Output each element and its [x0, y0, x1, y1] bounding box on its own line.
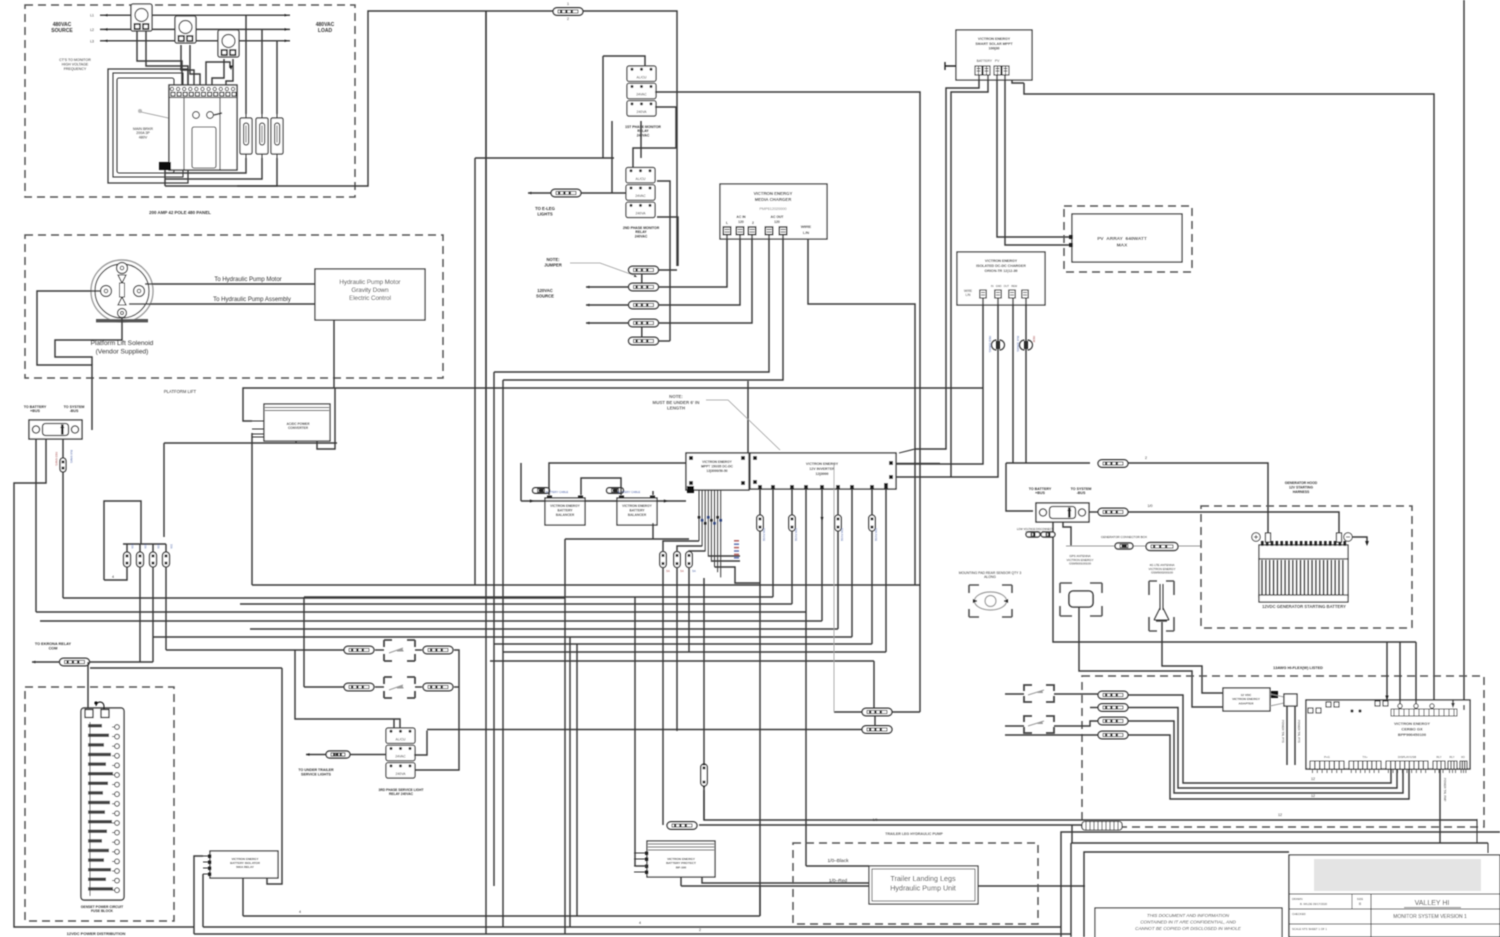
svg-text:FUSE BLOCK: FUSE BLOCK: [91, 909, 114, 913]
svg-text:PMP612020000: PMP612020000: [759, 207, 786, 211]
drop x304b: [303, 597, 305, 687]
svg-text:CT'S TO MONITOR: CT'S TO MONITOR: [59, 58, 91, 62]
connector pill protect bus: [667, 822, 697, 830]
svg-text:24VAC: 24VAC: [635, 194, 646, 198]
svg-text:12VDC POWER DISTRIBUTION: 12VDC POWER DISTRIBUTION: [67, 931, 126, 936]
svg-text:4: 4: [112, 575, 114, 579]
cerbo top comb: [1391, 709, 1457, 716]
svg-text:5A: 5A: [692, 569, 696, 573]
drop x874 to pill: [873, 661, 875, 709]
svg-text:12|3000: 12|3000: [816, 472, 829, 476]
drop x565: [564, 539, 566, 934]
svg-text:GSM900200100: GSM900200100: [1151, 571, 1173, 575]
leader note2: [899, 449, 946, 453]
svg-text:Gravity Down: Gravity Down: [351, 287, 389, 294]
connector pill svc r1 left: [344, 646, 374, 654]
wire p0 right: [658, 269, 677, 271]
svg-text:P+G: P+G: [1324, 755, 1330, 759]
wire solenoid to motor: [145, 283, 315, 285]
wire T1 right out long: [655, 92, 920, 712]
ribbon bend 3: [689, 551, 705, 552]
svg-text:+BUS: +BUS: [1035, 491, 1045, 495]
svg-text:480VAC: 480VAC: [53, 22, 72, 28]
svg-text:CONVERTER: CONVERTER: [288, 426, 309, 430]
svg-text:200 AMP 42 POLE 480 PANEL: 200 AMP 42 POLE 480 PANEL: [149, 210, 211, 215]
bus y644: [494, 643, 872, 645]
wire U2 drop x872: [871, 489, 873, 644]
svg-text:CONTAINED IN IT ARE CONFIDENTI: CONTAINED IN IT ARE CONFIDENTIAL, AND: [1140, 919, 1236, 924]
4g dashed box: [1149, 581, 1174, 631]
eye sensor dashed box: [969, 585, 1012, 617]
bracket1 left stub: [1005, 693, 1024, 695]
arrow L3 left: [104, 39, 108, 42]
cerbo comb group4: [1433, 761, 1445, 773]
wire adapter eth1: [1286, 706, 1288, 765]
wire r1 mid b: [415, 649, 422, 651]
arrow cerbo feed1: [1385, 696, 1388, 701]
fuse group feed 2: [139, 544, 141, 552]
wire cab1 right: [892, 711, 920, 713]
bus bottom y927: [203, 926, 1061, 928]
wire ve.can top edge: [1463, 0, 1465, 705]
title row line3: [1289, 923, 1500, 925]
wire 4g lead: [1162, 622, 1223, 693]
gray line generator: [1066, 545, 1201, 547]
wire bp bottom1: [680, 877, 682, 886]
wire src lead 305: [586, 304, 629, 306]
wire cerbo feed2: [1399, 642, 1401, 708]
B2 top pins: [619, 496, 624, 499]
wire battery ground: [1352, 537, 1367, 541]
tiny pill lv2: [1041, 532, 1055, 537]
lamp dashed box r1: [384, 640, 415, 661]
svg-text:BP-100: BP-100: [676, 865, 687, 869]
title block outer: [1289, 855, 1500, 937]
svg-text:GENERATOR HOOD: GENERATOR HOOD: [1285, 481, 1318, 485]
ribbon legend marks: [734, 540, 739, 559]
wire row4 to cerbo: [1128, 735, 1409, 799]
drop x760 low: [759, 886, 761, 916]
platform connector block: [29, 420, 82, 439]
wire minus bus b: [1128, 512, 1339, 535]
svg-text:GENERATOR CONNECTOR BOX: GENERATOR CONNECTOR BOX: [1101, 535, 1147, 539]
drop x760: [759, 585, 761, 916]
wire bus battery plus b: [1128, 463, 1268, 535]
victron media converter box: [720, 184, 827, 239]
wire row2 to cerbo: [1128, 708, 1397, 789]
U2 bottom pins: [758, 485, 888, 489]
svg-text:POWER TRL PTS: POWER TRL PTS: [1297, 720, 1301, 743]
4g antenna symbol: [1154, 584, 1169, 621]
svg-text:POWER TRL PTS: POWER TRL PTS: [1281, 720, 1285, 743]
wire orion drop to connector: [1006, 463, 1033, 511]
svg-text:2: 2: [752, 221, 754, 225]
arrow svc pill: [306, 753, 310, 756]
pv input pins: [1069, 235, 1073, 239]
bus bottom y934: [194, 933, 1071, 935]
trailer landing legs box: [869, 866, 978, 904]
relay box RB1: [210, 851, 278, 878]
fuse group fuse 1: [124, 552, 131, 567]
wire T3 right mid: [414, 731, 427, 756]
connector pill svc r2 right: [423, 683, 453, 691]
connector pill e-leg: [551, 189, 581, 197]
wire T1 top feed b: [603, 56, 645, 66]
wire cab1 gray up: [833, 463, 835, 712]
svg-text:DRAWN: DRAWN: [1292, 897, 1302, 901]
svg-text:L: L: [726, 221, 728, 225]
svg-text:ALONG: ALONG: [984, 575, 996, 579]
long vertical x486: [485, 11, 487, 934]
wire L2 to F2: [261, 29, 263, 114]
trailer landing legs inner: [872, 869, 975, 901]
ribbon bend 5: [711, 560, 740, 562]
ribbon bend 2: [677, 546, 702, 552]
svg-text:L2: L2: [90, 28, 94, 32]
wire rb jog vertical: [267, 668, 282, 884]
svg-text:5A: 5A: [666, 569, 670, 573]
svg-text:BALANCER: BALANCER: [556, 513, 575, 517]
arrow L3 right: [285, 39, 289, 42]
wire r1 mid a: [375, 649, 384, 651]
wire U2 drop x760: [759, 489, 761, 585]
wire solenoid inner loop: [55, 318, 122, 365]
wire B1-B2 link: [581, 478, 621, 495]
wire ve.direct long right: [1024, 83, 1434, 703]
current transformer CT2: [175, 16, 196, 43]
victron orion box: [957, 252, 1045, 305]
svg-text:15A FUSE: 15A FUSE: [840, 528, 844, 541]
dashed trailer pump enclosure: [793, 843, 1038, 924]
svg-text:BATTERY: BATTERY: [629, 509, 645, 513]
arrow marker x822: [820, 517, 823, 521]
connector pill svc r2 left: [344, 683, 374, 691]
wire T3 top stub2: [393, 719, 395, 728]
wire T2 right stub: [657, 181, 670, 341]
cerbo pin circles: [1398, 704, 1434, 708]
fuse F2: [256, 114, 268, 158]
converter vents: [265, 408, 329, 411]
wire r2 mid b: [415, 686, 422, 688]
svg-text:LIGHTS: LIGHTS: [537, 211, 553, 216]
svg-text:12|3000/50-50: 12|3000/50-50: [706, 469, 727, 473]
lamp dashed box r2: [384, 677, 415, 698]
battery plus terminal: [1252, 533, 1260, 541]
wire jumper p3-p4: [641, 326, 643, 338]
wire U2 drop x838: [837, 489, 839, 629]
wire U2 drop x886: [885, 489, 887, 652]
wire lv loop: [1053, 522, 1416, 642]
lamp switch r2: [389, 685, 403, 690]
ribbon bend 4: [708, 555, 740, 557]
wire media t1: [658, 235, 727, 287]
svg-text:TO UNDER TRAILER: TO UNDER TRAILER: [298, 768, 334, 772]
svg-text:MPPT 150/35 DC-DC: MPPT 150/35 DC-DC: [701, 464, 733, 468]
eye sensor symbol: [973, 592, 1008, 610]
bus y443: [164, 442, 337, 444]
svg-text:NOTE:: NOTE:: [669, 394, 683, 399]
svg-text:BATTERY: BATTERY: [557, 509, 573, 513]
svg-text:THIS DOCUMENT AND INFORMATION: THIS DOCUMENT AND INFORMATION: [1147, 913, 1230, 918]
smartsolar terminal blocks: [975, 66, 1009, 75]
svg-text:Platform Lift Solenoid: Platform Lift Solenoid: [91, 340, 154, 347]
wire genset feed: [87, 662, 89, 708]
svg-text:TRAILER LEG HYDRAULIC PUMP: TRAILER LEG HYDRAULIC PUMP: [885, 832, 943, 836]
svg-text:120: 120: [774, 220, 780, 224]
cerbo comb group2: [1349, 761, 1381, 773]
svg-text:AC IN: AC IN: [736, 215, 746, 219]
wire L1 to F1: [245, 15, 247, 114]
svg-text:480VAC: 480VAC: [316, 22, 335, 28]
svg-text:CERBO GX: CERBO GX: [1401, 727, 1423, 732]
svg-text:ORION-TR 12|12-30: ORION-TR 12|12-30: [985, 269, 1018, 273]
wire svc pill right: [350, 754, 386, 756]
panel lug black: [159, 162, 171, 170]
svg-text:12V STARTING: 12V STARTING: [1289, 486, 1313, 490]
bus y661: [490, 660, 874, 662]
wire T3 top: [295, 650, 400, 728]
arrow src 323: [586, 322, 590, 325]
svg-text:240VA: 240VA: [636, 212, 647, 216]
bracket2 left stub: [1005, 725, 1024, 727]
wire solar bat- down: [951, 75, 988, 477]
arrow L2 left: [104, 28, 108, 31]
inline fuse on x872: [869, 515, 876, 531]
gps dashed box: [1060, 583, 1102, 616]
battery minus terminal: [1344, 533, 1352, 541]
media converter terminals: [723, 227, 787, 235]
svg-text:12V INVERTER: 12V INVERTER: [809, 467, 835, 471]
frame corner a: [1061, 832, 1500, 937]
wire panel out to monitor: [237, 11, 553, 186]
panel terminal strip: [169, 85, 237, 98]
title col line2: [1288, 855, 1290, 937]
wire F2 out: [165, 158, 262, 179]
svg-text:POWER TRL PMP: POWER TRL PMP: [1443, 778, 1447, 801]
svg-text:RLY: RLY: [1449, 755, 1454, 759]
wire row1 feed: [166, 649, 344, 651]
svg-text:240VA: 240VA: [637, 110, 648, 114]
wire cab1 left: [834, 711, 862, 713]
svg-text:15A FUSE: 15A FUSE: [762, 528, 766, 541]
wire CT2 lead b: [190, 45, 200, 85]
svg-text:LENGTH: LENGTH: [667, 406, 685, 411]
bus link vert: [1071, 825, 1073, 843]
dc converter box: [264, 404, 330, 441]
wire conn drop1: [35, 439, 37, 612]
inline fuse on x760: [757, 515, 764, 531]
wire fuse loop: [104, 501, 141, 580]
wire row3 to cerbo: [1128, 721, 1403, 793]
orion terminals: [980, 290, 1028, 298]
svg-text:VICTRON ENERGY: VICTRON ENERGY: [978, 37, 1011, 41]
wire r2 mid a: [375, 686, 384, 688]
gps antenna puck: [1069, 591, 1093, 607]
wire bp pin 866: [635, 865, 647, 867]
svg-text:PV ARRAY 640WATT: PV ARRAY 640WATT: [1097, 236, 1147, 242]
dashed platform lift enclosure: [25, 235, 443, 378]
svg-text:240VAC: 240VAC: [637, 133, 650, 137]
victron cerbo gx box: [1306, 700, 1470, 769]
svg-text:B. WILDE 09/17/2020: B. WILDE 09/17/2020: [1300, 902, 1327, 906]
wire solar pv1 to array: [997, 75, 1070, 237]
smartsolar left stub: [945, 62, 956, 70]
svg-text:VICTRON ENERGY: VICTRON ENERGY: [754, 191, 793, 196]
connector pill row3: [1098, 717, 1128, 725]
genset terminals: [85, 710, 93, 718]
dashed cerbo enclosure: [1082, 676, 1484, 827]
wire balancer join: [520, 462, 522, 465]
bus y731: [427, 729, 862, 731]
cerbo drop to bus: [1439, 769, 1441, 843]
victron battery balancer B2: [617, 498, 657, 525]
connector pill svc r1 right: [423, 646, 453, 654]
tiny pill above B1: [533, 488, 550, 494]
inline connector orion b: [1020, 340, 1033, 350]
wire media t4: [494, 235, 769, 372]
wire panel feed up: [206, 62, 230, 85]
wire cab jumper: [874, 716, 876, 727]
bus dc 12v: [704, 790, 1477, 820]
wire fuse loop b: [104, 566, 127, 580]
connector pill row1: [1098, 691, 1128, 699]
arrow balancer mid: [664, 499, 668, 502]
svg-text:AL/CU: AL/CU: [396, 737, 407, 741]
bus y598: [63, 597, 565, 599]
wire conn drop3: [62, 439, 64, 598]
connector pill monitor feed: [553, 8, 583, 16]
wire src lead 287: [586, 286, 629, 288]
bus pill protect right: [699, 824, 1082, 826]
wire media wire-ln drop: [808, 239, 915, 585]
svg-text:VALLEY HI: VALLEY HI: [1415, 900, 1450, 907]
wire converter pin down: [251, 433, 253, 585]
wire orion t1: [896, 298, 983, 464]
12vdc adapter box: [1223, 688, 1270, 711]
connector pill svc feed: [326, 751, 350, 758]
wire trio2 down: [676, 568, 678, 731]
victron inverter box U2: [750, 453, 896, 489]
wire U2 drop x806: [805, 489, 807, 866]
wire pill branch down: [485, 11, 487, 585]
cerbo top pin cluster: [1308, 701, 1388, 713]
leader door hinge: [138, 109, 142, 113]
valley hi underline: [1404, 907, 1461, 909]
converter left pins: [252, 421, 264, 437]
wire RB1 stub1: [194, 856, 203, 934]
wire pill to T1 area: [583, 11, 677, 266]
bus red to right: [681, 885, 1085, 887]
RB1 left pins: [203, 855, 212, 877]
drop x503: [502, 380, 504, 927]
wire solenoid to assembly: [129, 303, 315, 305]
wire CT1 lead b: [146, 31, 188, 85]
connector pill cab1: [862, 708, 892, 716]
svg-text:VICTRON ENERGY: VICTRON ENERGY: [550, 504, 580, 508]
pv array box: [1072, 214, 1182, 262]
wire CT2 leads: [181, 45, 194, 85]
svg-text:DISPLAY/USB: DISPLAY/USB: [1398, 755, 1416, 759]
svg-text:2: 2: [699, 928, 701, 932]
bus y621: [40, 620, 822, 622]
bus y612: [36, 611, 806, 613]
svg-text:1/0–Black: 1/0–Black: [827, 858, 849, 864]
svg-text:240VA: 240VA: [396, 772, 407, 776]
striped connector end: [1082, 822, 1122, 831]
svg-text:SCALE NTS SHEET 1 OF: SCALE NTS SHEET 1 OF 1: [1292, 927, 1327, 931]
connector pill p3: [629, 319, 659, 327]
svg-text:4: 4: [299, 910, 301, 914]
arrow L2 right: [285, 28, 289, 31]
wire B2 to U1: [652, 491, 654, 495]
adapter right pin: [1271, 691, 1278, 698]
fuse group feed 3: [152, 544, 154, 552]
svg-text:HIGH VOLTAGE: HIGH VOLTAGE: [62, 62, 89, 66]
svg-text:GSM900100100: GSM900100100: [1069, 562, 1091, 566]
fuse group fuse 2: [137, 552, 144, 567]
svg-text:PLATFORM LIFT: PLATFORM LIFT: [164, 389, 197, 394]
svg-text:NOTE:: NOTE:: [546, 257, 559, 262]
svg-text:1: 1: [567, 2, 569, 6]
wire bp bottom2: [702, 877, 869, 883]
victron battery balancer B1: [545, 498, 585, 525]
inline fuse conn: [60, 458, 66, 472]
svg-text:L/N: L/N: [803, 230, 810, 235]
drop x494: [493, 372, 495, 886]
wire T2 right jumper: [657, 217, 678, 266]
wire T1 top feed: [602, 56, 604, 158]
arrow src 305: [586, 304, 590, 307]
wire ekrona right: [89, 661, 153, 663]
bus y629: [250, 628, 838, 630]
pill generator striped: [1146, 543, 1178, 551]
victron smartsolar box: [956, 30, 1032, 80]
svg-text:VICTRON ENERGY: VICTRON ENERGY: [1394, 721, 1430, 726]
svg-text:BPP900450100: BPP900450100: [1398, 732, 1427, 737]
wire 1-0 black: [806, 865, 869, 867]
wire minus bus: [1089, 511, 1098, 513]
svg-text:13AWG HI-FLEX(W) LISTED: 13AWG HI-FLEX(W) LISTED: [1273, 666, 1323, 670]
wire solar right pin: [1012, 80, 1024, 83]
wire converter jog: [317, 388, 335, 449]
svg-text:VICTRON ENERGY: VICTRON ENERGY: [985, 259, 1018, 263]
wire phase L2: [100, 28, 290, 30]
system minus connector block: [1036, 503, 1089, 522]
panel divider right: [219, 98, 221, 170]
arrow panel feed: [229, 66, 232, 71]
wire row4 stub: [1005, 734, 1098, 736]
bus y597: [304, 596, 773, 598]
title col line: [1370, 894, 1372, 937]
svg-text:SOURCE: SOURCE: [536, 293, 554, 298]
inline fuse x704: [701, 764, 708, 786]
wire U2 drop x822: [821, 489, 823, 621]
wire converter feed: [243, 388, 983, 421]
wire svc pill left: [306, 754, 326, 756]
svg-text:IN GND OUT REM: IN GND OUT REM: [991, 284, 1017, 288]
wire fuse4 down: [165, 567, 167, 650]
frame corner b: [1070, 843, 1072, 937]
svg-text:To Hydraulic Pump Motor: To Hydraulic Pump Motor: [214, 277, 281, 283]
wire trio1 down: [662, 568, 664, 825]
arrow ekrona: [32, 661, 36, 664]
wire U2 drop x852: [851, 489, 853, 637]
svg-text:(Vendor Supplied): (Vendor Supplied): [96, 349, 149, 356]
ribbon bend 1: [663, 541, 699, 552]
leader jumper: [570, 263, 636, 276]
wire CT3 lead b: [226, 59, 233, 85]
svg-text:2: 2: [1145, 456, 1147, 460]
